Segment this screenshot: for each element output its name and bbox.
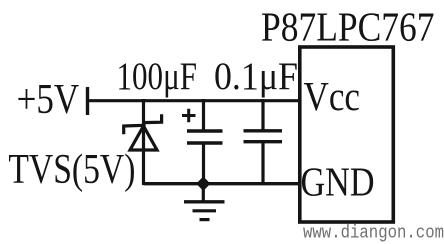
wire top rail +5V to Vcc [88,99,301,102]
wire C1 top lead [202,99,205,131]
ground bar 3 [200,218,210,221]
svg-text:TVS(5V): TVS(5V) [8,147,135,193]
ground bar 1 [184,200,225,203]
ground stem [202,185,205,201]
wire diode branch vertical [142,99,145,185]
C1 top plate [187,129,223,132]
diode triangle anode [130,126,157,150]
svg-text:P87LPC767: P87LPC767 [261,4,435,50]
wire C1 bottom lead [202,143,205,185]
capacitor C2 0.1uF [244,99,283,185]
junction node dot [197,178,209,190]
ground symbol [184,185,225,220]
svg-text:100μF: 100μF [117,55,198,98]
svg-text:+5V: +5V [17,77,80,123]
svg-text:GND: GND [301,158,375,204]
svg-text:Vcc: Vcc [304,73,361,119]
TVS diode D1 [124,99,162,185]
svg-text:0.1μF: 0.1μF [214,55,298,98]
diode cathode bar zener [124,114,162,134]
C2 bottom plate [244,140,283,143]
C1 polarity plus sign [182,109,196,123]
capacitor C1 100uF [182,99,223,185]
svg-text:www.diangon.com: www.diangon.com [303,224,444,244]
IC U1 P87LPC767 [300,47,394,222]
C2 top plate [244,129,283,132]
ground bar 2 [193,209,217,212]
C1 bottom plate [187,141,223,144]
wire bottom rail to GND pin [144,182,301,185]
node +5V terminal tick [86,87,89,115]
wire C2 bottom lead [261,142,264,185]
wire C2 top lead [261,99,264,131]
